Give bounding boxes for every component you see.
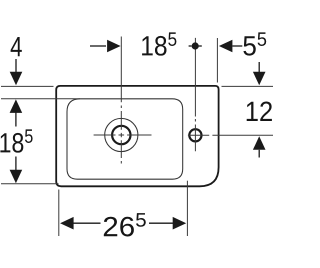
dim 18-5 (top) label (142, 32, 176, 55)
dim 18-5 (left) arrow down (15, 157, 17, 171)
dim 18-5 (left) arrow up (10, 99, 23, 113)
washbasin outer rim outline (top view) (56, 86, 218, 186)
extension line: bowl rear edge extended left (dim 4 / 18-5) (1, 98, 80, 100)
extension line: basin rear edge extended right (dim 12) (222, 85, 274, 87)
dim 18-5 (left) label (0, 129, 32, 152)
dot terminator at tap centerline (192, 42, 199, 49)
dim 26-5 arrow left (60, 217, 74, 230)
extension line: right reference extended down (dim 26-5) (186, 181, 188, 236)
extension line: basin front edge extended left (dim 18-5) (1, 183, 59, 185)
drain horizontal centerline (94, 134, 152, 136)
drain vertical centerline (120, 37, 122, 164)
dim 26-5 arrow right (149, 222, 174, 224)
tap hole circle (189, 129, 201, 141)
dim 4 arrow down (15, 59, 17, 72)
drain outer circle (105, 118, 138, 151)
dim line stub right of dot (199, 45, 202, 47)
dim 5-5 label (243, 32, 266, 55)
tap hole horizontal centerline, extends right as extension line for dim 12 (188, 134, 273, 136)
dim 12 label (247, 102, 272, 121)
extension line above basin right edge (dim 5-5) (216, 38, 218, 83)
dim 4 label (11, 37, 22, 56)
extension line: basin rear edge extended left (dim 4 / 18-5) (1, 85, 54, 87)
dim 12 arrow up to tap centerline (253, 136, 266, 150)
dim line segment from label to dot (189, 45, 192, 47)
bowl inner outline (67, 99, 183, 179)
dim 26-5 label (104, 213, 146, 236)
dim 5-5 arrow left (219, 40, 233, 53)
top dimension line: arrow right toward drain centerline (90, 45, 106, 47)
tap hole vertical centerline from dimension dot down (194, 38, 196, 151)
drain inner circle (112, 126, 130, 144)
dim 12 arrow down to rear edge line (258, 62, 260, 72)
extension line: basin left edge extended down (dim 26-5) (58, 190, 60, 237)
